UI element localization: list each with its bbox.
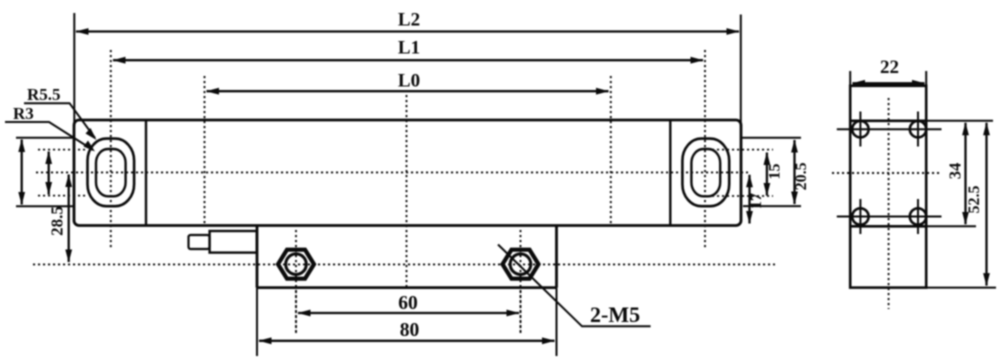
left bolt vertical centerline — [295, 230, 297, 333]
left hole centerline vertical — [110, 50, 112, 250]
bolt row centerline — [33, 263, 775, 265]
upper screw tick right — [917, 112, 919, 147]
L2 right witness — [740, 15, 742, 127]
20.5 top witness — [742, 137, 801, 139]
15 top witness dotted — [712, 149, 773, 151]
svg-text:20.5: 20.5 — [793, 162, 810, 190]
upper band top line — [850, 120, 926, 123]
lower screw circle right — [910, 208, 926, 224]
L0 right extension — [610, 76, 612, 226]
dimension 80 — [259, 340, 555, 342]
dimension L0 — [207, 90, 609, 92]
dimension 15 — [766, 153, 768, 196]
L2 left witness — [73, 13, 75, 126]
outer dim top witness — [16, 137, 74, 139]
52.5 top witness extension — [926, 120, 993, 122]
main body outline — [74, 120, 741, 226]
horizontal centerline of body — [36, 171, 748, 173]
label 2-M5 leader — [498, 245, 651, 327]
lower screw tick right — [917, 199, 919, 234]
upper screw circle left — [852, 121, 868, 137]
upper hole center line — [837, 128, 942, 130]
dimension 17 — [748, 175, 750, 224]
dimension L2 — [76, 30, 739, 32]
inner dim bottom witness dotted — [38, 195, 88, 197]
side view rectangle — [850, 86, 926, 288]
left slot inner contour R3 — [96, 149, 126, 196]
svg-text:52.5: 52.5 — [966, 186, 983, 214]
60 left witness dotted — [295, 291, 297, 333]
mid centerline vertical — [406, 95, 408, 288]
L0 left extension — [204, 76, 206, 226]
lower screw tick left — [859, 199, 861, 234]
dimension 52.5 — [985, 123, 987, 286]
upper screw circle right — [910, 121, 926, 137]
dimension 22 — [853, 82, 925, 84]
22 right witness — [925, 71, 927, 86]
dimension L1 — [113, 59, 703, 61]
connector body — [210, 231, 257, 253]
svg-text:R5.5: R5.5 — [27, 85, 61, 104]
15 bottom witness dotted — [712, 195, 773, 197]
connector plug small — [189, 235, 210, 249]
side view horizontal centerline — [832, 172, 940, 174]
lower screw circle left — [852, 208, 868, 224]
svg-text:R3: R3 — [13, 104, 34, 123]
left inner height dim — [48, 152, 50, 195]
svg-text:28.5: 28.5 — [48, 206, 67, 236]
left slot outer contour R5.5 — [88, 139, 135, 207]
hex bolt right — [503, 250, 539, 279]
left cap divider — [145, 120, 147, 226]
right slot outer contour — [682, 139, 729, 207]
right hole centerline vertical — [704, 50, 706, 249]
svg-text:80: 80 — [400, 320, 420, 341]
svg-text:L2: L2 — [398, 10, 420, 31]
20.5 bottom witness — [743, 205, 801, 207]
hex bolt left — [278, 250, 314, 279]
svg-text:L1: L1 — [398, 37, 420, 58]
dimension 20.5 — [793, 140, 795, 204]
bottom edge extension — [926, 287, 996, 289]
dimension 34 — [964, 123, 966, 225]
svg-text:15: 15 — [767, 164, 784, 180]
svg-text:L0: L0 — [398, 70, 420, 91]
mounting bracket outline — [257, 226, 557, 288]
60 right witness dotted — [520, 291, 522, 333]
right bolt vertical centerline — [520, 230, 522, 333]
lower band bottom line — [850, 225, 926, 228]
34 bottom witness extension — [926, 225, 976, 227]
svg-text:2-M5: 2-M5 — [590, 302, 640, 327]
svg-text:34: 34 — [946, 163, 965, 180]
bracket witness extensions for 80 — [257, 288, 557, 356]
upper screw tick left — [859, 112, 861, 147]
inner dim top witness dotted — [38, 149, 88, 151]
side view vertical centerline — [888, 98, 890, 309]
right slot inner contour — [691, 149, 720, 196]
svg-text:22: 22 — [880, 57, 899, 78]
right cap divider — [669, 120, 671, 226]
22 left witness — [849, 71, 851, 86]
outer dim bottom witness — [16, 205, 74, 207]
lower hole center line — [837, 216, 942, 218]
dimension 60 — [298, 312, 519, 314]
dimension 28.5 — [68, 175, 70, 263]
svg-text:60: 60 — [398, 293, 418, 314]
left outer height dim — [21, 140, 23, 205]
